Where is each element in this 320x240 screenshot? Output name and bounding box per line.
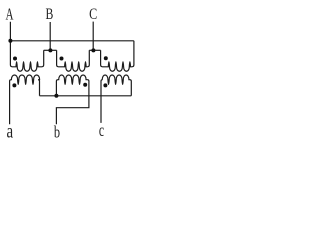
svg-text:b: b (54, 124, 60, 142)
svg-text:B: B (46, 5, 54, 23)
svg-text:a: a (6, 119, 13, 142)
svg-text:c: c (99, 122, 104, 141)
svg-text:C: C (89, 5, 97, 23)
svg-text:A: A (5, 5, 14, 24)
